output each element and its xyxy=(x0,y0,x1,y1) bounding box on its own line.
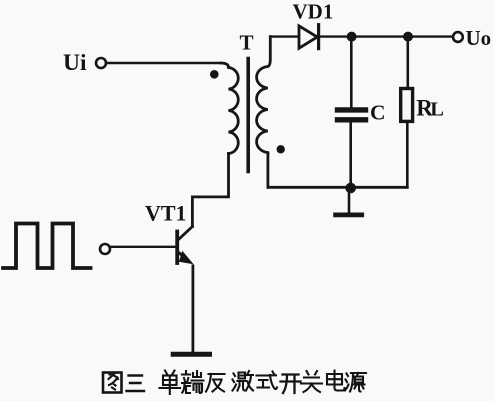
svg-text:Uo: Uo xyxy=(466,26,492,50)
char 激 xyxy=(233,371,254,391)
char 电 xyxy=(327,371,345,391)
wire emitter to ground xyxy=(191,266,194,352)
diode VD1 xyxy=(299,25,319,49)
polarity dot primary xyxy=(210,70,219,79)
char 三 xyxy=(127,376,145,392)
transformer T secondary winding xyxy=(257,37,271,154)
caption 图三 单端反激式开关电源 xyxy=(103,371,366,395)
char 单 xyxy=(160,371,181,395)
square-wave source symbol xyxy=(3,224,91,269)
wire diode to output xyxy=(319,35,453,37)
char 源 xyxy=(345,373,366,392)
terminal Ui (open circle) xyxy=(96,58,106,68)
transformer T primary winding xyxy=(221,63,238,154)
char 关 xyxy=(301,371,322,392)
wire node to ground xyxy=(348,188,351,213)
char 端 xyxy=(182,371,204,393)
resistor RL xyxy=(401,89,413,122)
ground (emitter) xyxy=(173,352,209,357)
svg-text:VD1: VD1 xyxy=(293,0,334,23)
char 开 xyxy=(281,375,301,394)
terminal base input (open circle) xyxy=(100,244,110,254)
wire secondary top to diode xyxy=(270,35,298,37)
char 图 xyxy=(103,373,122,393)
svg-text:L: L xyxy=(430,99,444,121)
node junction dot at C branch xyxy=(347,32,357,42)
wire primary bottom to collector xyxy=(192,154,228,227)
transistor VT1 emitter slant with arrow xyxy=(178,252,186,259)
svg-text:Ui: Ui xyxy=(63,50,87,76)
svg-text:VT1: VT1 xyxy=(145,200,187,225)
wire top node to capacitor xyxy=(350,37,353,107)
wire top node to RL xyxy=(406,37,409,89)
transistor VT1 base bar xyxy=(175,232,179,264)
wire RL to bottom rail xyxy=(406,121,409,187)
svg-text:C: C xyxy=(370,101,386,125)
transistor VT1 collector slant xyxy=(178,227,192,240)
capacitor C top plate xyxy=(338,107,366,112)
terminal Uo (open circle) xyxy=(453,32,463,42)
node junction dot bottom xyxy=(345,183,356,194)
char 式 xyxy=(257,372,278,390)
ground (output side) xyxy=(336,212,362,217)
transformer core xyxy=(246,59,250,172)
wire bottom rail xyxy=(268,186,407,189)
node junction dot at RL branch xyxy=(403,32,413,42)
char 反 xyxy=(206,374,225,392)
wire Ui to primary top xyxy=(106,62,221,64)
svg-text:T: T xyxy=(240,31,254,55)
capacitor C bottom plate xyxy=(338,117,366,122)
wire secondary bottom to bottom rail xyxy=(266,154,269,188)
wire base xyxy=(110,246,176,248)
wire capacitor to bottom rail xyxy=(349,123,352,188)
polarity dot secondary xyxy=(277,145,285,153)
